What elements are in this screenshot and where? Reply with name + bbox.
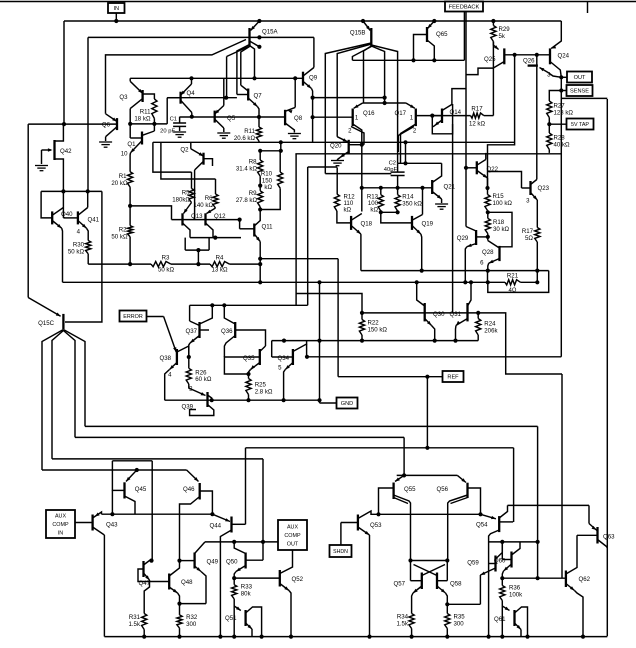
arrow Q15C emitter <box>56 313 61 317</box>
node R24 top <box>476 311 480 315</box>
wire Q15C collector 2 <box>52 331 63 459</box>
wire x422 down <box>422 188 424 209</box>
wire Q16 base rail <box>313 116 353 118</box>
wire Q38 emitter <box>170 363 177 370</box>
svg-text:C1: C1 <box>170 117 177 123</box>
transistor Q31 bar <box>466 303 468 321</box>
svg-text:Q23: Q23 <box>538 185 550 192</box>
svg-text:Q40: Q40 <box>61 211 73 218</box>
wire R27 top link <box>549 91 561 102</box>
svg-text:Q1: Q1 <box>127 141 136 148</box>
node y282 x260 <box>258 280 262 284</box>
wire Q57 base up <box>410 561 412 581</box>
arrow Q14 emitter <box>435 122 440 126</box>
node y98 x226 <box>224 96 228 100</box>
svg-text:Q65: Q65 <box>436 31 448 38</box>
transistor Q12 bar <box>204 213 206 225</box>
node y357 x307 <box>305 355 309 359</box>
wire Q15B leg C2 <box>371 45 397 163</box>
node y578 x234 <box>232 576 236 580</box>
svg-text:Q15B: Q15B <box>350 30 366 37</box>
node y578 x502 <box>500 576 504 580</box>
svg-text:5k: 5k <box>499 33 506 40</box>
wire Q54 base <box>499 521 513 523</box>
wire Q7 emitter <box>248 98 257 107</box>
svg-text:140 kΩ: 140 kΩ <box>194 202 214 209</box>
svg-text:Q3: Q3 <box>119 94 128 101</box>
terminal IN <box>108 3 125 13</box>
arrow Q65 emitter <box>428 24 432 29</box>
svg-text:Q6: Q6 <box>102 122 111 129</box>
transistor Q13 bar <box>181 213 183 225</box>
wire bus y459 <box>52 458 263 460</box>
wire Q7 emitter down <box>258 107 260 117</box>
wire x64 down <box>63 21 65 124</box>
wire R9 bottom <box>259 207 261 210</box>
wire Q31 emitter down <box>455 325 458 340</box>
svg-text:Q39: Q39 <box>181 404 193 411</box>
arrow Q47 emitter <box>145 575 149 580</box>
svg-text:Q28: Q28 <box>482 249 494 256</box>
wire R17b bottom <box>536 242 538 271</box>
svg-text:Q37: Q37 <box>185 328 197 335</box>
transistor Q23 bar <box>529 181 531 195</box>
wire Q2 base <box>204 159 213 166</box>
wire Q31 collector <box>468 282 472 306</box>
svg-text:R27: R27 <box>554 103 566 110</box>
node R21 right <box>535 280 539 284</box>
wire Q15C collector 1 <box>42 330 63 471</box>
wire Q53 emitter down <box>369 535 371 637</box>
svg-text:100 kΩ: 100 kΩ <box>493 200 513 207</box>
wire Q48 collector <box>169 561 179 576</box>
svg-text:SHDN: SHDN <box>333 549 348 555</box>
wire Q20 emitter <box>340 152 349 158</box>
svg-text:40pF: 40pF <box>384 167 398 173</box>
svg-text:GND: GND <box>341 401 353 407</box>
wire right bus top <box>561 97 607 99</box>
node y282 x320 <box>317 280 321 284</box>
wire Q35 collector diag <box>260 346 266 352</box>
svg-text:40 kΩ: 40 kΩ <box>554 142 571 149</box>
transistor Q43 bar <box>91 515 93 531</box>
node y282 x488 <box>486 280 490 284</box>
terminal GND <box>337 398 358 409</box>
node y560 x410 <box>408 558 412 562</box>
arrow Q55 emitter <box>395 478 400 482</box>
arrow Q52 emitter <box>284 586 289 590</box>
wire R11b bottom <box>258 141 260 142</box>
svg-text:REF: REF <box>447 375 459 381</box>
wire Q11 base up <box>239 220 241 229</box>
node rail x234 <box>232 635 236 639</box>
node y560 x447 <box>445 558 449 562</box>
node rail x369 <box>367 635 371 639</box>
svg-text:12 kΩ: 12 kΩ <box>469 121 486 128</box>
wire R10 top <box>279 151 281 172</box>
wire Q15B leg left <box>352 47 371 61</box>
svg-text:5V TAP: 5V TAP <box>571 122 589 128</box>
resistor R25 2.8k <box>246 379 251 395</box>
wire Q3 collector down <box>129 109 131 124</box>
wire Q59 base <box>489 563 496 565</box>
wire R8-R9 <box>259 176 261 191</box>
wire y259 link <box>260 258 338 260</box>
svg-text:Q43: Q43 <box>106 522 118 529</box>
wire Q3 emitter up <box>129 78 131 81</box>
wire Q1 collector up <box>153 124 155 131</box>
wire Q7 base <box>237 94 248 96</box>
node y542 x263 <box>261 540 265 544</box>
arrow Q21 emitter <box>437 195 442 199</box>
wire y578 rail R <box>502 577 566 579</box>
wire R17 to R29 <box>484 115 494 117</box>
wire Q50 base <box>246 559 263 561</box>
wire y206 rail <box>130 206 171 220</box>
wire C1 net <box>180 116 286 118</box>
wire IN drop <box>115 13 117 21</box>
wire loop right <box>208 238 210 251</box>
svg-text:100k: 100k <box>509 592 523 599</box>
wire Q21 emitter gnd <box>441 199 443 203</box>
wire Q12 emitter diag <box>207 208 216 214</box>
node Q65 emitter rail <box>432 19 436 23</box>
resistor R15 100k <box>485 195 490 211</box>
wire Q51 emitter <box>246 623 252 629</box>
wire Q57 base <box>411 580 422 582</box>
arrow Q57 emitter <box>413 589 418 593</box>
wire Q8 emitter up <box>294 78 296 107</box>
node y21 x493 <box>491 19 495 23</box>
wire Q15B emitter <box>363 21 370 31</box>
arrow Q48 emitter <box>173 589 178 593</box>
capacitor C2 <box>391 172 405 175</box>
wire x561 main <box>560 77 562 357</box>
node rail x179 <box>177 635 181 639</box>
svg-text:Q54: Q54 <box>476 522 488 529</box>
wire loop left <box>184 238 186 251</box>
svg-text:R4: R4 <box>216 255 224 262</box>
wire GND riser <box>319 282 321 403</box>
arrow Q35 emitter <box>251 365 256 369</box>
wire Q2 emitter up <box>190 142 192 149</box>
svg-text:SENSE: SENSE <box>570 89 589 95</box>
wire y313 rail <box>362 312 478 314</box>
wire Q18 emitter down <box>360 234 362 271</box>
arrow Q53 emitter <box>365 531 370 535</box>
arrow Q62 emitter <box>570 586 575 590</box>
node y514 x112 <box>110 512 114 516</box>
wire Q56 collector b <box>451 498 468 504</box>
wire y188 rail <box>362 187 432 189</box>
node y264 x198 <box>196 262 200 266</box>
svg-text:R21: R21 <box>507 273 519 280</box>
svg-text:OUT: OUT <box>574 75 586 81</box>
arrow Q44 emitter <box>225 518 230 521</box>
wire Q15B leg mid <box>364 46 372 103</box>
svg-text:Q8: Q8 <box>294 115 303 122</box>
transistor Q40 <box>52 208 63 229</box>
node R11 bottom <box>152 122 156 126</box>
wire y271 rail <box>361 270 549 272</box>
node x130 y206 <box>128 204 132 208</box>
node rail x488 <box>487 635 491 639</box>
wire Q60 base <box>502 559 511 561</box>
wire Q21 collector <box>432 163 441 182</box>
wire Q59 emitter down <box>479 575 481 604</box>
transistor Q6 <box>106 114 117 137</box>
arrow Q25 emitter <box>494 45 499 49</box>
wire Q46 emitter <box>187 470 199 482</box>
wire y174 rail <box>325 173 391 175</box>
node rail x447 <box>445 635 449 639</box>
wire bus y426 <box>85 425 538 427</box>
transistor Q30 bar <box>424 303 426 321</box>
wire C2 bottom to R14 <box>397 176 399 195</box>
wire y212 link <box>381 211 398 213</box>
wire Q40 emitter down <box>61 228 64 282</box>
wire Q54 collector up <box>499 505 507 518</box>
wire Q60 emitter <box>504 564 512 571</box>
wire Q30 emitter down <box>431 325 434 340</box>
svg-text:R11: R11 <box>244 128 255 135</box>
wire x452 long <box>452 104 454 313</box>
node y341 x320 <box>317 339 321 343</box>
wire Q55 base strap <box>379 488 394 514</box>
svg-text:Q5: Q5 <box>227 115 236 122</box>
resistor R35 300 <box>445 614 450 629</box>
transistor Q52 bar <box>279 570 281 587</box>
wire bus y437 <box>75 436 404 438</box>
svg-text:Q17: Q17 <box>394 110 406 117</box>
wire Q36 collector <box>224 305 235 324</box>
wire Q13 collector <box>183 223 191 238</box>
wire Q23 base riser <box>488 172 522 189</box>
svg-text:R25: R25 <box>255 382 267 389</box>
node y400 x320 <box>317 398 321 402</box>
wire bottom rail <box>104 636 607 638</box>
svg-text:Q25: Q25 <box>484 56 496 63</box>
wire Q19 collector up <box>422 209 424 215</box>
node rail x583 <box>581 635 585 639</box>
wire R15-R18 <box>487 211 489 219</box>
wire y514 rail R <box>379 513 481 515</box>
node x259 y47 <box>257 45 261 49</box>
wire Q49 collector <box>195 542 205 554</box>
wire Q63 emitter <box>589 524 598 532</box>
wire Q34 base up <box>271 341 273 357</box>
svg-text:R15: R15 <box>493 193 505 200</box>
arrow Q13 emitter <box>184 209 188 214</box>
wire Q30 emitter <box>425 319 432 326</box>
resistor R11 18k <box>152 99 157 119</box>
wire x488 y271-282 <box>487 271 489 283</box>
wire Q52 emitter <box>280 584 289 591</box>
wire Q6 collector gnd <box>105 137 107 141</box>
svg-text:Q44: Q44 <box>209 523 221 530</box>
wire y341 rail <box>272 340 479 342</box>
wire Q63 base <box>577 534 598 536</box>
wire R11 bottom <box>153 119 155 124</box>
node y145 x362 <box>360 143 364 147</box>
wire Q58 base <box>437 580 447 582</box>
wire Q50 collector <box>234 542 245 554</box>
arrow Q60 emitter <box>504 567 509 571</box>
transistor Q14 bar <box>441 109 443 124</box>
wire Q53 emitter <box>358 527 370 535</box>
wire Q56 emitter <box>457 475 466 482</box>
node y400 x212 <box>210 398 214 402</box>
wire x466 to Q14 <box>452 89 466 104</box>
wire y357 rail <box>307 356 561 358</box>
transistor Q21 bar <box>431 180 433 194</box>
svg-text:123 kΩ: 123 kΩ <box>554 110 574 117</box>
wire Q38 emitter down <box>165 370 170 401</box>
svg-text:20 pF: 20 pF <box>160 129 175 135</box>
svg-text:Q60: Q60 <box>494 558 506 565</box>
wire R29 top <box>492 21 494 26</box>
transistor Q53 bar <box>357 515 359 531</box>
wire y163 link <box>398 162 442 164</box>
wire Q1 emitter down <box>129 153 131 172</box>
ground Q8 <box>288 134 301 139</box>
svg-text:R2: R2 <box>119 227 127 234</box>
transistor Q1 <box>130 131 154 153</box>
resistor R17 12k <box>471 113 484 118</box>
wire Q40 collector up <box>62 191 64 218</box>
wire y103 rail <box>363 102 406 104</box>
wire x153 drop <box>153 142 192 172</box>
arrow Q54 emitter <box>491 516 496 519</box>
svg-text:Q15A: Q15A <box>262 29 279 36</box>
wire R32 bottom <box>179 628 181 637</box>
svg-text:Q57: Q57 <box>393 581 405 588</box>
wire Q26 emitter <box>540 68 549 73</box>
svg-text:Q38: Q38 <box>159 355 171 362</box>
svg-text:Q50: Q50 <box>226 559 238 566</box>
node y560 x179 <box>177 559 181 563</box>
node Q22 base <box>464 166 468 170</box>
wire ERROR diag <box>164 317 177 353</box>
node y560 x152 <box>149 559 153 563</box>
resistor R5 180k <box>189 189 194 203</box>
node rail x220 <box>218 635 222 639</box>
svg-text:ERROR: ERROR <box>123 314 143 320</box>
wire Q49 base <box>180 560 195 562</box>
node y282 x471 <box>469 280 473 284</box>
node Q15A emitter rail <box>257 19 261 23</box>
wire Q15B leg right <box>371 46 384 103</box>
resistor R30 50k <box>86 241 91 254</box>
arrow Q63 emitter <box>592 526 597 530</box>
svg-text:R6: R6 <box>205 195 213 202</box>
wire Q41 emitter down <box>87 228 89 240</box>
transistor Q42 bar <box>53 140 55 160</box>
wire REF vertical <box>426 377 428 448</box>
wire Q29 emitter down <box>465 247 467 283</box>
svg-text:R17: R17 <box>522 228 534 235</box>
wire Q21 emitter <box>432 192 441 200</box>
wire y377 REF rail <box>338 376 443 378</box>
wire Q44 base <box>232 523 246 525</box>
svg-text:80k: 80k <box>241 591 252 598</box>
transistor Q35 bar <box>259 349 261 365</box>
svg-text:Q21: Q21 <box>444 184 456 191</box>
node y116 x432 <box>430 114 434 118</box>
svg-text:R32: R32 <box>186 614 198 621</box>
arrow Q38 emitter <box>170 365 175 369</box>
wire top rail y21 <box>64 20 561 22</box>
wire Q39 collector diag <box>208 395 212 400</box>
wire Q9 collector up <box>313 37 315 67</box>
wire Q4 collector down <box>191 113 193 117</box>
svg-text:Q58: Q58 <box>450 581 462 588</box>
transistor Q5 <box>215 106 224 129</box>
wire x263 drop <box>262 459 264 560</box>
wire Q8 collector gnd <box>285 123 294 133</box>
node y259 x260 <box>258 257 262 261</box>
wire x380 to Q19 base <box>381 212 412 223</box>
wire R28 bottom down <box>548 150 550 153</box>
arrow Q20 base <box>343 138 348 142</box>
wire x308 drop <box>307 167 309 305</box>
transistor Q63 bar <box>596 527 598 544</box>
wire bus x514 down <box>513 448 515 522</box>
wire R35 bottom <box>446 629 448 637</box>
wire diag2 to Q15A <box>227 47 249 57</box>
wire y55 Q6 emitter rail <box>106 40 247 114</box>
wire R18 bottom <box>487 234 489 241</box>
wire x88 down <box>87 37 89 191</box>
ground Q5 <box>217 133 230 138</box>
node y341 x362 <box>360 339 364 343</box>
resistor R34 1.5k <box>409 614 414 629</box>
transistor Q54 bar <box>498 516 500 532</box>
arrow Q43 emitter <box>95 513 100 517</box>
node y188 x362 <box>360 186 364 190</box>
svg-text:Q61: Q61 <box>494 616 506 623</box>
wire R22 top <box>361 313 363 320</box>
svg-text:180kΩ: 180kΩ <box>172 197 190 204</box>
wire Q4 emitter up <box>191 78 193 84</box>
wire rail y37 <box>88 36 314 38</box>
arrow Q49 emitter <box>196 567 201 571</box>
wire R31 bottom <box>143 630 145 637</box>
wire Q25 collector <box>466 62 504 75</box>
svg-text:Q30: Q30 <box>433 311 445 318</box>
arrow Q42 gate <box>48 148 53 151</box>
wire Q55 emitter <box>395 475 404 481</box>
wire Q59 emitter <box>480 568 495 575</box>
terminal AUX COMP OUT <box>278 520 307 550</box>
arrow Q58 emitter <box>441 589 446 593</box>
resistor R21 4ohm <box>505 280 521 285</box>
resistor R12 110k <box>334 194 339 211</box>
svg-text:30 kΩ: 30 kΩ <box>493 226 510 233</box>
wire y191 rail <box>41 190 102 192</box>
wire R29 to Q25 <box>493 42 498 50</box>
wire R30 bottom <box>87 254 89 264</box>
wire Q65 emitter <box>428 21 435 29</box>
transistor Q65 bar <box>426 27 428 42</box>
svg-text:R5: R5 <box>182 190 190 197</box>
resistor R3 50k <box>151 262 171 267</box>
wire Q47 collector diag <box>144 559 152 565</box>
frame top border <box>0 1 636 3</box>
wire Q45 base down <box>111 490 113 514</box>
ground C1 <box>173 132 186 137</box>
svg-text:2.8 kΩ: 2.8 kΩ <box>255 389 273 396</box>
